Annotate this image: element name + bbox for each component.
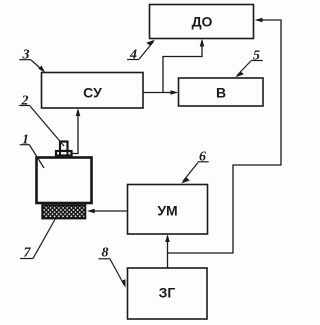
wire UM to radiating element [87, 209, 128, 214]
label 4 leader [127, 40, 155, 63]
block UM (УМ) [128, 185, 208, 235]
block V (В) [179, 78, 264, 106]
svg-text:СУ: СУ [83, 85, 102, 101]
wire ZG to UM [165, 234, 170, 268]
label 5 leader [235, 48, 262, 77]
wire sensor to SU input [72, 108, 81, 153]
label 2 leader [19, 93, 64, 146]
svg-text:ДО: ДО [192, 14, 213, 30]
block SU (СУ) [42, 73, 144, 109]
label 7 leader [20, 219, 55, 261]
svg-text:УМ: УМ [157, 203, 177, 219]
svg-text:В: В [216, 84, 226, 100]
block DO (ДО) U-top-right [150, 5, 254, 39]
wire ZG branch to DO [168, 18, 282, 253]
transducer body box (element 1) [37, 158, 92, 204]
label 1 leader [20, 132, 44, 168]
svg-text:ЗГ: ЗГ [159, 285, 176, 301]
wire SU to V [144, 90, 179, 95]
wire branch SU to DO [163, 39, 204, 93]
label 3 leader [19, 47, 45, 72]
label 6 leader [181, 149, 209, 183]
sensor element on top (element 2) [56, 142, 72, 156]
block ZG (ЗГ) [128, 268, 208, 319]
radiating element hatched block (element 7) [42, 205, 85, 218]
label 8 leader [98, 246, 125, 288]
